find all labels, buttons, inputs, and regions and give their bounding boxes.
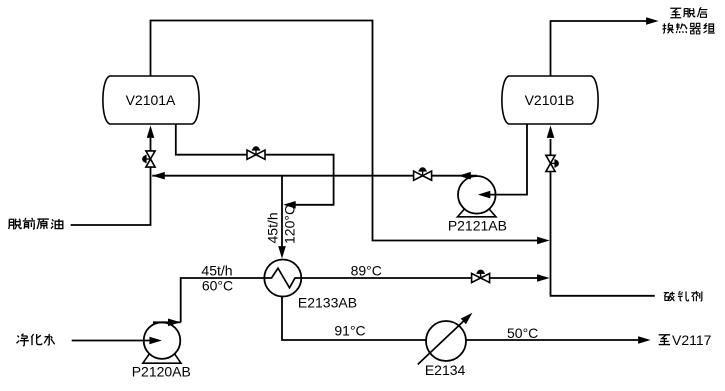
pipe V2101A water outlet jog [176,124,334,209]
svg-text:120°C: 120°C [282,205,298,244]
pipe purified water inlet [72,337,162,345]
svg-text:P2120AB: P2120AB [132,364,191,380]
svg-text:91°C: 91°C [334,323,365,339]
label purified water [17,334,55,346]
pipe overhead V2101A to V2101B riser [151,21,550,245]
label to V2117 [659,332,712,348]
vessel V2101A [103,76,199,124]
valve on 89C line [472,270,490,283]
pipe E2133AB bottom to E2134 [282,297,426,341]
vessel V2101B [502,76,598,124]
svg-text:E2133AB: E2133AB [298,295,357,311]
svg-text:P2121AB: P2121AB [448,217,507,233]
label demulsifier [664,291,702,301]
label crude oil feed [9,218,63,229]
pipe P2121AB suction from V2101B [478,124,527,198]
pipe E2134 outlet to V2117 [466,336,651,344]
svg-text:V2101A: V2101A [126,92,176,108]
pump P2121AB [458,176,497,217]
pump P2120AB [143,322,181,363]
valve on V2101A feed riser [142,151,155,167]
svg-text:89°C: 89°C [351,263,382,279]
svg-text:45t/h: 45t/h [201,263,232,279]
pipe demulsifier inlet and V2101B feed riser [547,125,655,295]
heat exchanger E2133AB [264,260,301,297]
pipe P2121AB discharge return line [152,172,477,180]
pipe 89C outlet to riser [301,274,549,282]
pipe V2101B overhead outlet [551,17,659,76]
pipe cold inlet from P2120AB [153,278,264,326]
label to post-desalting exchanger group [662,7,714,33]
svg-text:60°C: 60°C [202,278,233,294]
svg-text:V2101B: V2101B [525,92,575,108]
valve on discharge return line [414,167,432,180]
valve on V2101B feed riser [546,155,559,171]
svg-text:V2117: V2117 [672,332,712,348]
pipe hot inlet drop to E2133AB [278,176,286,259]
pipe crude feed and V2101A feed riser [71,125,155,225]
svg-text:E2134: E2134 [425,362,466,378]
valve on water outlet line [247,146,265,159]
cooler E2134 [418,313,473,365]
svg-text:45t/h: 45t/h [265,212,281,243]
svg-text:50°C: 50°C [507,325,538,341]
